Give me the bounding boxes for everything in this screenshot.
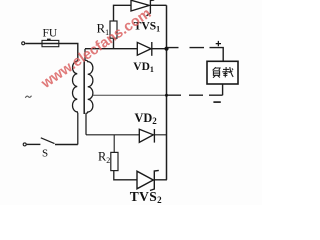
- junction dot at VD1/rail: [164, 47, 168, 51]
- diode TVS2: [137, 170, 159, 190]
- svg-text:R2: R2: [98, 150, 110, 166]
- switch S blade: [41, 138, 55, 144]
- R2 top lead: [113, 135, 115, 153]
- wire through fuse: [42, 43, 59, 45]
- load box: [207, 61, 238, 84]
- transformer primary winding: [73, 60, 78, 145]
- svg-text:VD2: VD2: [135, 111, 158, 126]
- diode VD1: [137, 42, 152, 56]
- wire: R1 top to TVS1 row: [114, 5, 132, 21]
- diode TVS1: [131, 0, 154, 16]
- TVS1 diode wire right of cathode: [151, 4, 167, 6]
- label -: [213, 101, 220, 103]
- terminal N (bottom input): [23, 143, 26, 146]
- VD1 row wire: [85, 48, 167, 50]
- wire: terminal to fuse: [25, 43, 42, 45]
- dashed wire to load -: [168, 84, 223, 95]
- wire: fuse to corner, down to transformer primary: [59, 44, 78, 60]
- svg-text:TVS2: TVS2: [130, 189, 162, 205]
- VD2 row wire: [86, 134, 167, 136]
- right rail: [166, 5, 168, 180]
- terminal L (top input): [22, 42, 25, 45]
- diode VD2: [139, 129, 154, 143]
- resistor R2: [111, 152, 118, 170]
- svg-text:FU: FU: [43, 28, 58, 40]
- label load 负载 (drawn glyphs): [213, 67, 234, 78]
- resistor R1: [110, 21, 117, 38]
- svg-text:VD1: VD1: [133, 61, 154, 74]
- scan mark above fuse: [47, 38, 51, 40]
- transformer core: [83, 60, 85, 115]
- switch wire from transformer: [55, 144, 78, 146]
- label +: [216, 41, 221, 46]
- fuse FU body: [42, 40, 59, 46]
- svg-text:S: S: [42, 148, 48, 160]
- label ~ AC: [25, 96, 31, 98]
- switch wire to terminal: [27, 143, 41, 145]
- transformer secondary winding: [85, 49, 93, 135]
- wire: R1 bottom lead: [113, 38, 115, 49]
- R2 bottom lead + TVS2 row wire: [114, 171, 167, 180]
- transformer center tap wire: [93, 94, 167, 96]
- dashed wire to load +: [168, 48, 224, 62]
- junction dot at center-tap/rail: [165, 94, 168, 97]
